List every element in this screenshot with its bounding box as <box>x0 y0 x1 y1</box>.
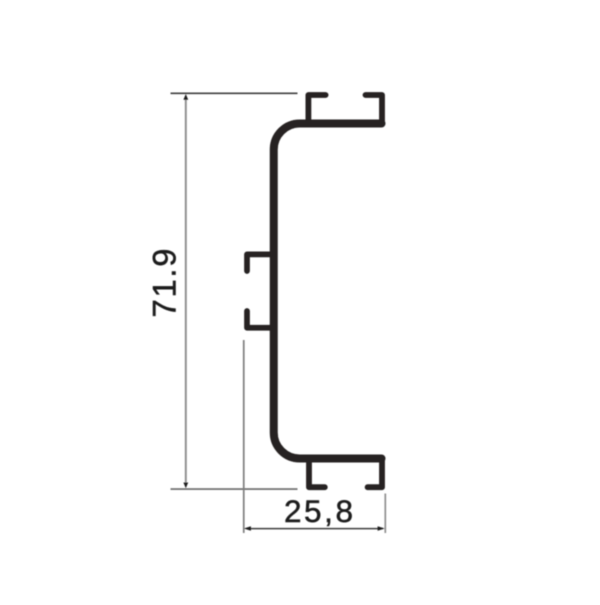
top screw-channel left tab <box>308 95 325 122</box>
vertical dimension line 71.9 <box>185 97 187 486</box>
bottom screw-channel right tab <box>368 460 382 487</box>
arrow down <box>183 483 188 489</box>
bottom screw-channel left tab <box>309 460 325 487</box>
svg-text:25,8: 25,8 <box>284 493 356 529</box>
horizontal dimension line 25,8 <box>247 528 382 530</box>
top screw-channel right tab <box>366 95 383 122</box>
middle lower hook <box>247 311 273 328</box>
arrow right <box>378 526 385 531</box>
arrow up <box>183 94 188 100</box>
extension line bottom (71.9) <box>171 488 298 490</box>
extension line top (71.9) <box>171 92 298 94</box>
arrow left <box>244 526 251 531</box>
extension line left (25,8) <box>243 340 245 533</box>
middle upper hook <box>247 254 273 271</box>
svg-text:71.9: 71.9 <box>146 247 183 318</box>
extension line right (25,8) <box>384 494 386 534</box>
profile main C contour <box>274 124 382 459</box>
